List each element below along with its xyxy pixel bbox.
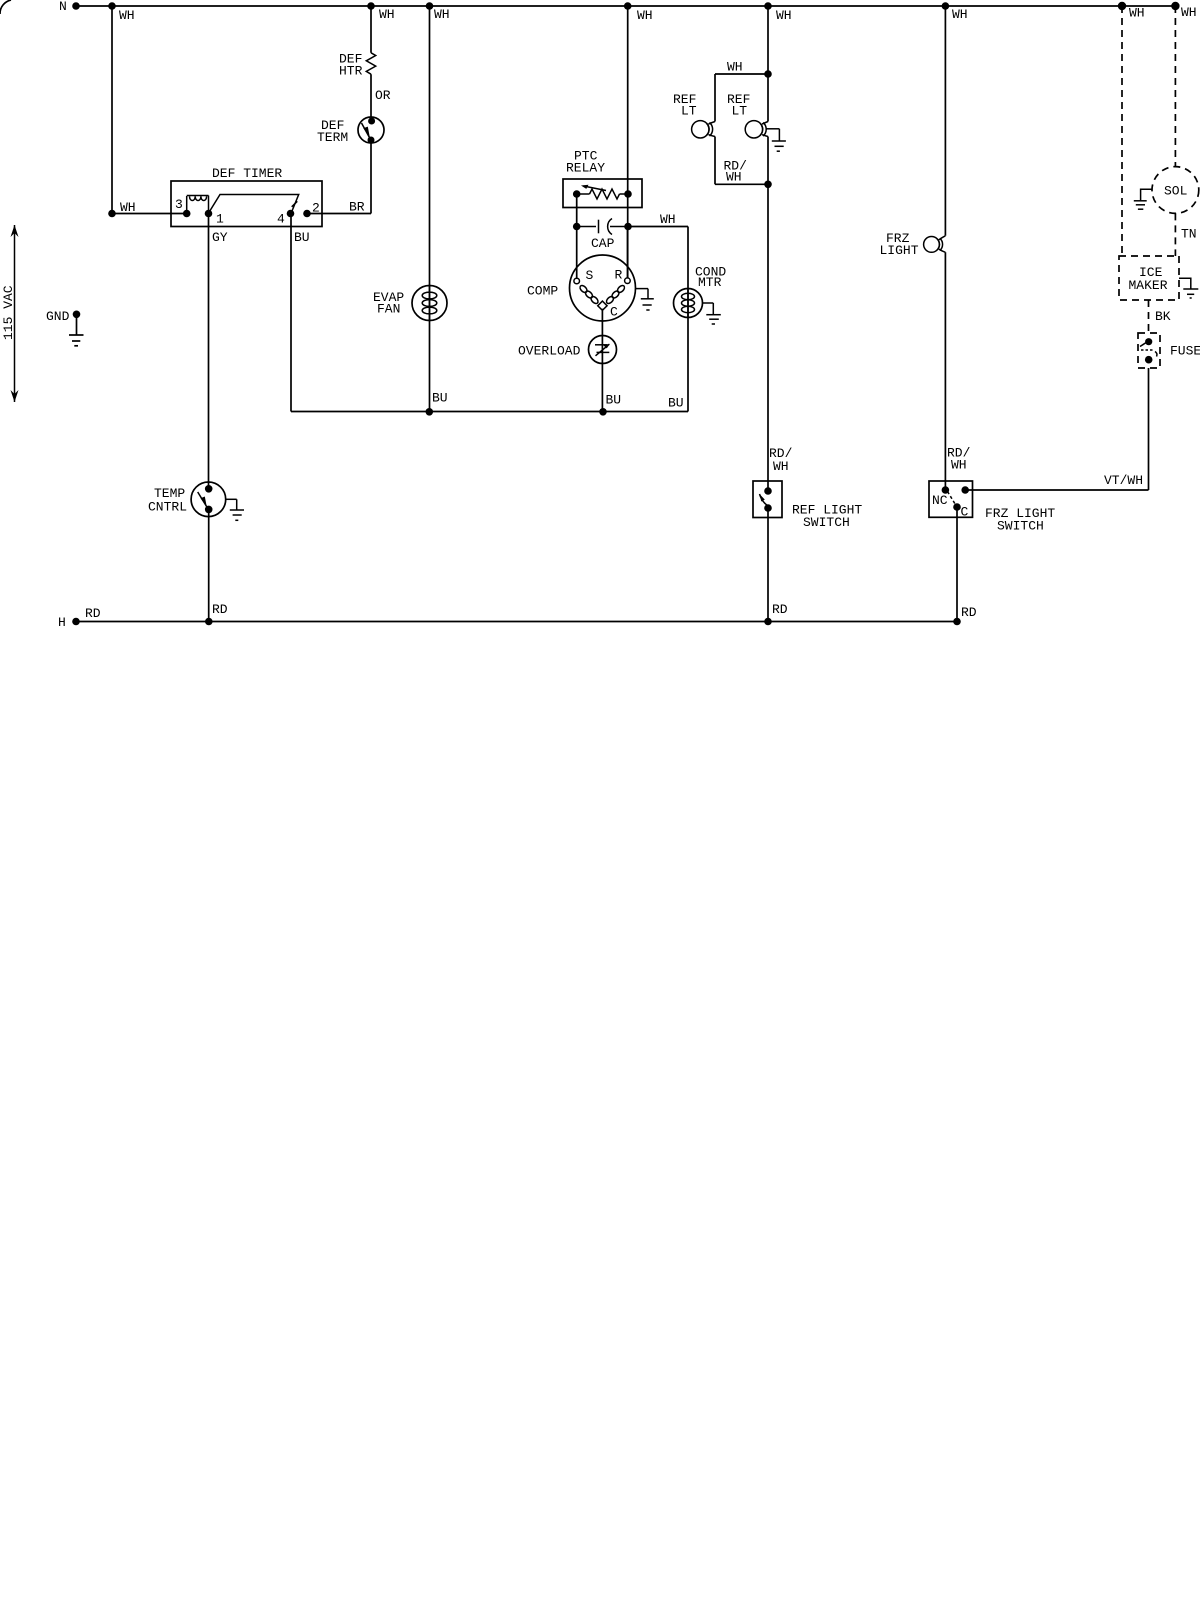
- svg-text:COMP: COMP: [527, 284, 558, 299]
- svg-text:VT/WH: VT/WH: [1104, 473, 1143, 488]
- svg-text:WH: WH: [773, 459, 789, 474]
- svg-text:S: S: [586, 268, 594, 283]
- svg-text:C: C: [961, 505, 969, 520]
- svg-text:BK: BK: [1155, 309, 1171, 324]
- svg-text:BU: BU: [432, 391, 448, 406]
- svg-text:SWITCH: SWITCH: [997, 519, 1044, 534]
- svg-text:RELAY: RELAY: [566, 161, 605, 176]
- svg-text:C: C: [610, 305, 618, 320]
- svg-text:SOL: SOL: [1164, 184, 1187, 199]
- svg-text:BU: BU: [668, 396, 684, 411]
- svg-text:FAN: FAN: [377, 302, 400, 317]
- svg-text:MAKER: MAKER: [1129, 278, 1168, 293]
- svg-text:LT: LT: [732, 104, 748, 119]
- svg-text:WH: WH: [660, 212, 676, 227]
- svg-text:GY: GY: [212, 230, 228, 245]
- svg-text:NC: NC: [932, 493, 948, 508]
- svg-text:CNTRL: CNTRL: [148, 500, 187, 515]
- svg-text:BR: BR: [349, 200, 365, 215]
- svg-text:WH: WH: [951, 458, 967, 473]
- svg-text:FUSE: FUSE: [1170, 344, 1200, 359]
- svg-text:LIGHT: LIGHT: [880, 243, 919, 258]
- svg-text:BU: BU: [606, 393, 622, 408]
- svg-text:3: 3: [175, 197, 183, 212]
- svg-text:115 VAC: 115 VAC: [1, 285, 16, 340]
- svg-text:WH: WH: [637, 8, 653, 23]
- svg-text:HTR: HTR: [339, 64, 363, 79]
- svg-text:WH: WH: [726, 170, 742, 185]
- svg-text:WH: WH: [776, 8, 792, 23]
- svg-text:RD: RD: [961, 605, 977, 620]
- svg-text:WH: WH: [119, 8, 135, 23]
- svg-text:WH: WH: [434, 7, 450, 22]
- svg-text:1: 1: [216, 212, 224, 227]
- svg-text:RD: RD: [212, 602, 228, 617]
- svg-text:DEF TIMER: DEF TIMER: [212, 166, 282, 181]
- svg-text:OVERLOAD: OVERLOAD: [518, 344, 581, 359]
- svg-text:WH: WH: [379, 7, 395, 22]
- svg-text:SWITCH: SWITCH: [803, 515, 850, 530]
- svg-text:OR: OR: [375, 88, 391, 103]
- svg-text:LT: LT: [681, 104, 697, 119]
- svg-text:4: 4: [277, 212, 285, 227]
- svg-text:MTR: MTR: [698, 275, 722, 290]
- svg-text:N: N: [59, 0, 67, 14]
- svg-text:GND: GND: [46, 309, 70, 324]
- svg-text:WH: WH: [1181, 5, 1197, 20]
- svg-text:CAP: CAP: [591, 236, 615, 251]
- svg-text:RD: RD: [85, 606, 101, 621]
- svg-text:BU: BU: [294, 230, 310, 245]
- svg-text:WH: WH: [120, 200, 136, 215]
- svg-text:R: R: [615, 268, 623, 283]
- svg-text:H: H: [58, 615, 66, 630]
- svg-text:2: 2: [312, 201, 320, 216]
- svg-text:TN: TN: [1181, 227, 1197, 242]
- svg-text:WH: WH: [952, 7, 968, 22]
- svg-text:TERM: TERM: [317, 130, 348, 145]
- svg-text:WH: WH: [1129, 6, 1145, 21]
- svg-text:RD: RD: [772, 602, 788, 617]
- svg-text:WH: WH: [727, 60, 743, 75]
